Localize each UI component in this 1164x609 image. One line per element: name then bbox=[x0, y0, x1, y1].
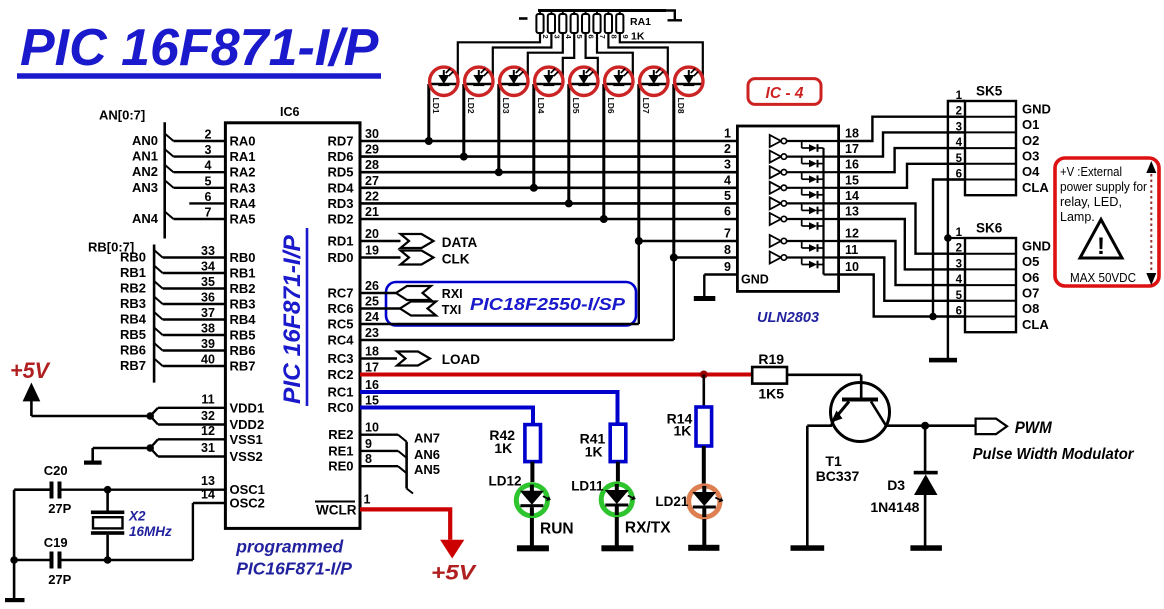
svg-text:31: 31 bbox=[201, 441, 215, 455]
svg-text:GND: GND bbox=[1022, 238, 1051, 253]
svg-text:CLK: CLK bbox=[442, 252, 470, 267]
svg-text:1K: 1K bbox=[674, 423, 692, 439]
svg-text:RB0: RB0 bbox=[120, 250, 146, 265]
svg-text:LD6: LD6 bbox=[606, 98, 616, 114]
svg-text:7: 7 bbox=[205, 206, 212, 220]
svg-text:5: 5 bbox=[205, 174, 212, 188]
svg-text:8: 8 bbox=[365, 452, 372, 466]
svg-text:1: 1 bbox=[956, 227, 963, 239]
svg-text:RD2: RD2 bbox=[327, 212, 353, 227]
svg-text:18: 18 bbox=[845, 127, 859, 141]
svg-text:3: 3 bbox=[724, 158, 731, 172]
svg-text:4: 4 bbox=[724, 173, 731, 187]
svg-text:BC337: BC337 bbox=[816, 468, 860, 484]
svg-text:RC2: RC2 bbox=[327, 367, 353, 382]
svg-text:RA5: RA5 bbox=[230, 212, 256, 227]
svg-text:RC0: RC0 bbox=[327, 400, 353, 415]
svg-text:D3: D3 bbox=[887, 477, 905, 493]
svg-text:RB3: RB3 bbox=[230, 297, 256, 312]
svg-text:8: 8 bbox=[724, 243, 731, 257]
svg-text:RC4: RC4 bbox=[327, 333, 354, 348]
svg-text:DATA: DATA bbox=[442, 235, 478, 250]
svg-text:ULN2803: ULN2803 bbox=[757, 310, 819, 326]
svg-text:GND: GND bbox=[741, 273, 769, 287]
svg-text:!: ! bbox=[1097, 233, 1105, 260]
svg-text:RB1: RB1 bbox=[230, 266, 256, 281]
svg-text:LD3: LD3 bbox=[501, 98, 511, 114]
svg-text:AN0: AN0 bbox=[132, 133, 158, 148]
svg-text:5: 5 bbox=[724, 189, 731, 203]
svg-text:27: 27 bbox=[365, 174, 379, 188]
svg-text:RD0: RD0 bbox=[327, 250, 353, 265]
svg-text:1N4148: 1N4148 bbox=[870, 499, 919, 515]
svg-text:WCLR: WCLR bbox=[316, 503, 357, 518]
svg-text:LD4: LD4 bbox=[536, 98, 546, 114]
svg-text:AN5: AN5 bbox=[414, 462, 440, 477]
svg-text:25: 25 bbox=[365, 295, 379, 309]
svg-text:RE0: RE0 bbox=[328, 459, 353, 474]
svg-text:RB1: RB1 bbox=[120, 265, 146, 280]
svg-text:TXI: TXI bbox=[442, 303, 461, 317]
svg-text:RC7: RC7 bbox=[327, 286, 353, 301]
svg-text:LD12: LD12 bbox=[489, 474, 522, 489]
svg-text:10: 10 bbox=[365, 421, 379, 435]
svg-text:5: 5 bbox=[575, 35, 584, 39]
svg-text:O8: O8 bbox=[1022, 301, 1039, 316]
svg-text:LD7: LD7 bbox=[641, 98, 651, 114]
svg-text:+5V: +5V bbox=[431, 561, 477, 585]
svg-text:T1: T1 bbox=[825, 453, 842, 469]
svg-text:Lamp.: Lamp. bbox=[1060, 210, 1095, 224]
svg-text:RE1: RE1 bbox=[328, 443, 353, 458]
svg-text:PIC 16F871-I/P: PIC 16F871-I/P bbox=[20, 19, 379, 77]
svg-text:30: 30 bbox=[365, 127, 379, 141]
svg-text:CLA: CLA bbox=[1022, 317, 1049, 332]
svg-text:11: 11 bbox=[201, 392, 214, 406]
svg-text:power supply for: power supply for bbox=[1060, 180, 1147, 194]
svg-text:O2: O2 bbox=[1022, 133, 1039, 148]
svg-text:RB6: RB6 bbox=[120, 343, 146, 358]
svg-text:SK5: SK5 bbox=[976, 84, 1003, 99]
svg-text:RA0: RA0 bbox=[230, 134, 256, 149]
svg-text:programmed: programmed bbox=[235, 537, 343, 557]
svg-text:6: 6 bbox=[205, 190, 212, 204]
svg-text:VDD1: VDD1 bbox=[230, 400, 265, 415]
svg-text:RD5: RD5 bbox=[327, 165, 353, 180]
svg-text:9: 9 bbox=[724, 260, 731, 274]
svg-text:RC1: RC1 bbox=[327, 385, 353, 400]
svg-text:40: 40 bbox=[201, 353, 215, 367]
svg-text:35: 35 bbox=[201, 275, 215, 289]
svg-text:20: 20 bbox=[365, 227, 379, 241]
svg-text:relay, LED,: relay, LED, bbox=[1060, 195, 1122, 209]
svg-text:11: 11 bbox=[845, 243, 858, 257]
svg-text:38: 38 bbox=[201, 322, 215, 336]
svg-text:O6: O6 bbox=[1022, 270, 1039, 285]
svg-text:LD11: LD11 bbox=[571, 479, 604, 494]
svg-text:PIC 16F871-I/P: PIC 16F871-I/P bbox=[279, 234, 306, 404]
svg-text:RB7: RB7 bbox=[230, 359, 256, 374]
svg-text:IC - 4: IC - 4 bbox=[766, 85, 804, 102]
svg-text:AN7: AN7 bbox=[414, 431, 440, 446]
svg-text:16: 16 bbox=[845, 158, 859, 172]
svg-text:+V :External: +V :External bbox=[1060, 165, 1122, 179]
svg-text:RD7: RD7 bbox=[327, 134, 353, 149]
svg-text:17: 17 bbox=[845, 142, 859, 156]
svg-text:Pulse Width Modulator: Pulse Width Modulator bbox=[973, 446, 1135, 463]
svg-text:RC5: RC5 bbox=[327, 317, 353, 332]
svg-text:VDD2: VDD2 bbox=[230, 417, 265, 432]
svg-text:RB3: RB3 bbox=[120, 296, 146, 311]
svg-text:O7: O7 bbox=[1022, 285, 1039, 300]
svg-text:13: 13 bbox=[201, 474, 215, 488]
svg-text:RB4: RB4 bbox=[230, 312, 257, 327]
svg-text:LD21: LD21 bbox=[655, 494, 689, 509]
svg-text:32: 32 bbox=[201, 409, 215, 423]
svg-text:RD3: RD3 bbox=[327, 196, 353, 211]
svg-text:33: 33 bbox=[201, 244, 215, 258]
svg-text:9: 9 bbox=[365, 437, 372, 451]
svg-text:34: 34 bbox=[201, 260, 215, 274]
svg-text:O4: O4 bbox=[1022, 164, 1040, 179]
svg-text:1: 1 bbox=[364, 493, 371, 507]
svg-text:RA4: RA4 bbox=[230, 196, 257, 211]
svg-text:RB4: RB4 bbox=[120, 312, 147, 327]
svg-text:6: 6 bbox=[587, 35, 596, 39]
svg-text:3: 3 bbox=[205, 143, 212, 157]
svg-text:RB6: RB6 bbox=[230, 343, 256, 358]
svg-text:PWM: PWM bbox=[1015, 418, 1053, 437]
svg-text:AN[0:7]: AN[0:7] bbox=[99, 108, 145, 123]
svg-text:MAX 50VDC: MAX 50VDC bbox=[1070, 271, 1136, 285]
svg-text:2: 2 bbox=[541, 35, 550, 39]
svg-text:RD4: RD4 bbox=[327, 180, 354, 195]
svg-text:27P: 27P bbox=[48, 501, 71, 516]
svg-text:RB2: RB2 bbox=[230, 281, 256, 296]
svg-text:X2: X2 bbox=[128, 509, 146, 524]
svg-text:12: 12 bbox=[201, 424, 215, 438]
svg-text:OSC2: OSC2 bbox=[230, 496, 265, 511]
svg-text:AN3: AN3 bbox=[132, 180, 158, 195]
svg-text:1K5: 1K5 bbox=[758, 386, 784, 402]
svg-text:LD1: LD1 bbox=[431, 98, 441, 114]
svg-text:AN6: AN6 bbox=[414, 447, 440, 462]
svg-text:28: 28 bbox=[365, 158, 379, 172]
svg-text:7: 7 bbox=[598, 35, 607, 39]
svg-text:36: 36 bbox=[201, 291, 215, 305]
svg-text:39: 39 bbox=[201, 337, 215, 351]
svg-text:21: 21 bbox=[365, 205, 379, 219]
svg-text:RB5: RB5 bbox=[230, 328, 256, 343]
svg-text:16MHz: 16MHz bbox=[129, 524, 172, 539]
svg-text:8: 8 bbox=[609, 35, 618, 39]
svg-text:AN1: AN1 bbox=[132, 149, 158, 164]
svg-text:19: 19 bbox=[365, 244, 379, 258]
svg-text:22: 22 bbox=[365, 189, 379, 203]
svg-text:26: 26 bbox=[365, 279, 379, 293]
svg-text:RD1: RD1 bbox=[327, 234, 353, 249]
svg-text:14: 14 bbox=[845, 189, 859, 203]
svg-text:15: 15 bbox=[365, 394, 379, 408]
svg-text:VSS1: VSS1 bbox=[230, 432, 263, 447]
svg-text:LD2: LD2 bbox=[466, 98, 476, 114]
svg-text:29: 29 bbox=[365, 143, 379, 157]
svg-text:RX/TX: RX/TX bbox=[625, 520, 671, 537]
svg-text:2: 2 bbox=[724, 142, 731, 156]
svg-text:SK6: SK6 bbox=[976, 221, 1003, 236]
svg-text:O3: O3 bbox=[1022, 148, 1039, 163]
svg-text:RB5: RB5 bbox=[120, 327, 146, 342]
svg-text:1K: 1K bbox=[631, 31, 645, 43]
svg-text:LD5: LD5 bbox=[571, 98, 581, 114]
svg-text:RC3: RC3 bbox=[327, 351, 353, 366]
svg-text:9: 9 bbox=[621, 35, 630, 39]
svg-text:1: 1 bbox=[724, 127, 731, 141]
svg-text:CLA: CLA bbox=[1022, 180, 1049, 195]
svg-text:10: 10 bbox=[845, 260, 859, 274]
svg-text:23: 23 bbox=[365, 326, 379, 340]
svg-text:RA1: RA1 bbox=[630, 16, 651, 28]
svg-text:+5V: +5V bbox=[10, 358, 51, 383]
svg-text:1K: 1K bbox=[585, 444, 603, 460]
svg-text:PIC16F871-I/P: PIC16F871-I/P bbox=[236, 559, 352, 579]
svg-text:RC6: RC6 bbox=[327, 301, 353, 316]
svg-text:AN2: AN2 bbox=[132, 164, 158, 179]
svg-text:RB0: RB0 bbox=[230, 250, 256, 265]
svg-text:1K: 1K bbox=[494, 440, 512, 456]
svg-text:6: 6 bbox=[724, 205, 731, 219]
svg-text:18: 18 bbox=[365, 345, 379, 359]
svg-text:PIC18F2550-I/SP: PIC18F2550-I/SP bbox=[470, 294, 625, 314]
svg-text:37: 37 bbox=[201, 306, 215, 320]
svg-text:17: 17 bbox=[365, 361, 379, 375]
svg-text:16: 16 bbox=[365, 378, 379, 392]
svg-text:RXI: RXI bbox=[442, 287, 463, 301]
svg-text:15: 15 bbox=[845, 173, 859, 187]
svg-text:RUN: RUN bbox=[540, 521, 574, 538]
svg-text:R19: R19 bbox=[758, 351, 784, 367]
svg-text:AN4: AN4 bbox=[132, 211, 159, 226]
svg-text:C20: C20 bbox=[44, 463, 68, 478]
svg-text:RA2: RA2 bbox=[230, 165, 256, 180]
svg-text:27P: 27P bbox=[48, 572, 71, 587]
svg-text:RA3: RA3 bbox=[230, 180, 256, 195]
svg-text:O1: O1 bbox=[1022, 117, 1039, 132]
svg-text:RB2: RB2 bbox=[120, 281, 146, 296]
svg-text:13: 13 bbox=[845, 205, 859, 219]
svg-text:C19: C19 bbox=[44, 535, 68, 550]
svg-text:RD6: RD6 bbox=[327, 149, 353, 164]
svg-text:2: 2 bbox=[205, 128, 212, 142]
svg-text:RE2: RE2 bbox=[328, 427, 353, 442]
svg-text:VSS2: VSS2 bbox=[230, 449, 263, 464]
svg-text:IC6: IC6 bbox=[280, 105, 300, 119]
svg-text:O5: O5 bbox=[1022, 254, 1039, 269]
svg-text:12: 12 bbox=[845, 227, 859, 241]
svg-text:LOAD: LOAD bbox=[442, 352, 480, 367]
svg-text:4: 4 bbox=[205, 159, 212, 173]
svg-text:GND: GND bbox=[1022, 101, 1051, 116]
svg-text:RB7: RB7 bbox=[120, 358, 146, 373]
svg-text:LD8: LD8 bbox=[676, 98, 686, 114]
svg-text:24: 24 bbox=[365, 310, 379, 324]
svg-text:RA1: RA1 bbox=[230, 149, 256, 164]
svg-text:7: 7 bbox=[724, 227, 731, 241]
svg-text:3: 3 bbox=[552, 35, 561, 39]
